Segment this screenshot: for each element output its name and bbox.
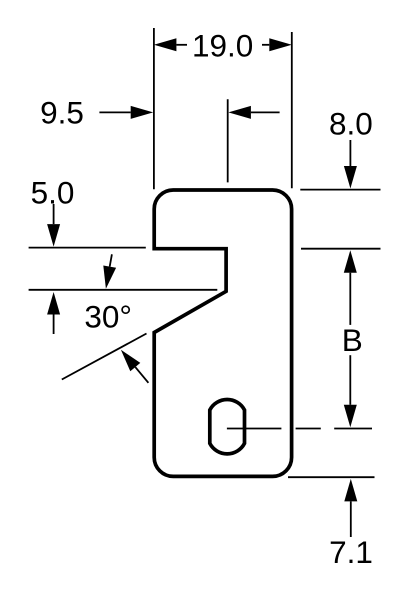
slot centerline [227,428,282,430]
svg-text:5.0: 5.0 [31,174,75,210]
slanted arrow at notch bottom line [103,254,116,288]
part outline (clip profile) [154,190,291,476]
svg-text:8.0: 8.0 [329,105,373,141]
svg-text:19.0: 19.0 [192,28,253,64]
slot centerline dash 2 [296,428,321,430]
dimension 19.0 right arrow [262,38,292,51]
dimension 8.0 down arrow [344,140,357,189]
slot (obround hole) [210,400,245,454]
extension line 19.0 left [153,28,155,189]
extension line 19.0 right [291,32,293,188]
dimension 19.0 left arrow [154,38,187,51]
svg-text:B: B [342,322,363,358]
thin diagonal 30 degree extension line [62,334,147,380]
dimension 5.0 up arrow [47,292,60,334]
30 degree leader arrow [121,350,148,383]
dimension 9.5 opposing arrow (points left at middle line) [228,106,279,119]
svg-text:7.1: 7.1 [329,534,373,570]
extension line bottom right (part bottom) [288,476,375,478]
svg-text:9.5: 9.5 [40,95,84,131]
dimension 5.0 down arrow [47,204,60,247]
slot centerline dash 3 [334,428,372,430]
svg-text:30°: 30° [84,299,132,335]
dimension B up arrow [344,250,357,325]
extension line middle (notch edge) [227,99,229,182]
extension line shelf left [29,247,146,249]
extension line top-right (part top) [300,189,380,191]
dimension 7.1 up arrow [344,479,357,537]
dimension B down arrow [344,355,357,427]
extension line shelf right (notch top) [301,248,381,250]
dimension 9.5 arrow (points right at left edge) [99,106,153,119]
extension line notch bottom left [29,289,218,291]
